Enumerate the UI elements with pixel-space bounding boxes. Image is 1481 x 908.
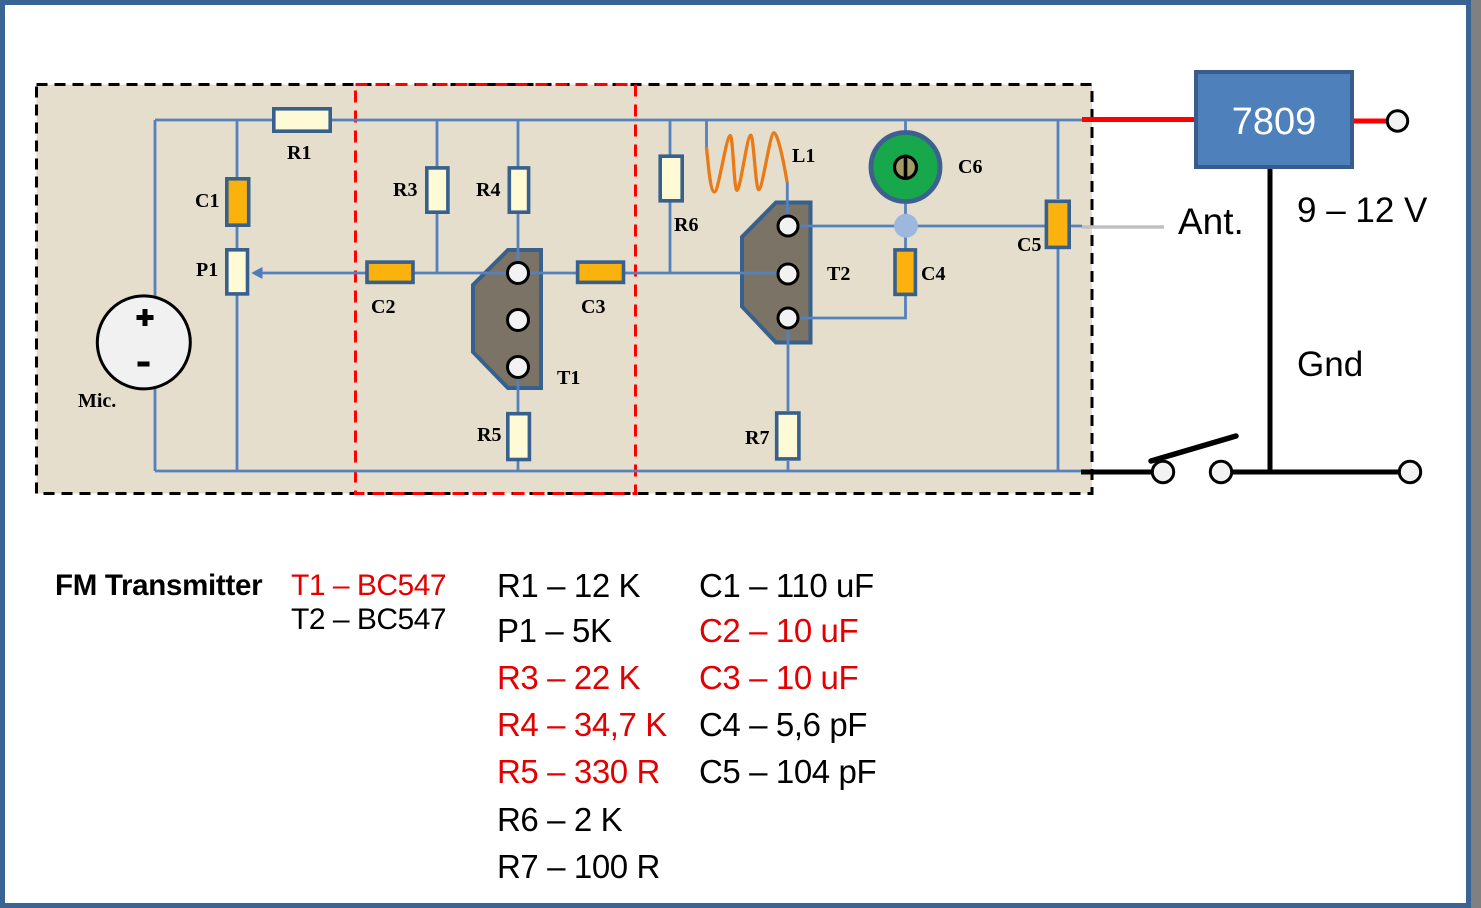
svg-text:C4: C4 [921, 263, 945, 285]
svg-text:C6: C6 [958, 156, 982, 178]
svg-text:R6 – 2 K: R6 – 2 K [497, 801, 623, 838]
svg-text:R7 – 100 R: R7 – 100 R [497, 848, 660, 885]
svg-text:C4 – 5,6 pF: C4 – 5,6 pF [699, 706, 867, 743]
svg-text:C3: C3 [581, 296, 605, 318]
svg-text:R4: R4 [476, 179, 500, 201]
svg-text:C2 – 10 uF: C2 – 10 uF [699, 612, 858, 649]
svg-text:R7: R7 [745, 427, 769, 449]
svg-text:C3 – 10 uF: C3 – 10 uF [699, 659, 858, 696]
svg-text:R3 – 22 K: R3 – 22 K [497, 659, 641, 696]
svg-text:R3: R3 [393, 179, 417, 201]
svg-text:C2: C2 [371, 296, 395, 318]
svg-text:T1 – BC547: T1 – BC547 [291, 569, 446, 602]
svg-text:L1: L1 [792, 145, 815, 167]
svg-text:R4 – 34,7 K: R4 – 34,7 K [497, 706, 667, 743]
svg-text:T1: T1 [557, 367, 580, 389]
svg-text:FM Transmitter: FM Transmitter [55, 569, 263, 602]
svg-text:C1 – 110 uF: C1 – 110 uF [699, 567, 874, 604]
svg-text:P1 – 5K: P1 – 5K [497, 612, 612, 649]
svg-text:R1 – 12 K: R1 – 12 K [497, 567, 641, 604]
svg-text:Gnd: Gnd [1297, 345, 1363, 384]
svg-text:R6: R6 [674, 214, 698, 236]
svg-text:Ant.: Ant. [1178, 201, 1244, 242]
svg-text:9 – 12 V: 9 – 12 V [1297, 191, 1428, 230]
svg-text:R5: R5 [477, 424, 501, 446]
svg-text:R5 – 330 R: R5 – 330 R [497, 753, 660, 790]
svg-text:P1: P1 [196, 259, 218, 281]
svg-text:Mic.: Mic. [78, 390, 116, 412]
svg-text:C1: C1 [195, 190, 219, 212]
svg-text:T2: T2 [827, 263, 850, 285]
svg-text:T2 – BC547: T2 – BC547 [291, 603, 446, 636]
svg-text:C5 – 104 pF: C5 – 104 pF [699, 753, 876, 790]
svg-text:C5: C5 [1017, 234, 1041, 256]
svg-text:R1: R1 [287, 142, 311, 164]
svg-text:7809: 7809 [1232, 101, 1317, 143]
